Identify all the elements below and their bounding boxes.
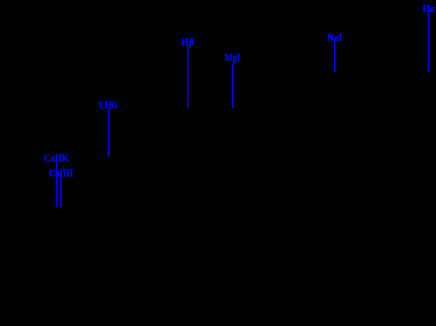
line CaIIK xyxy=(56,162,58,207)
line CHG xyxy=(108,109,110,156)
line H-alpha xyxy=(428,12,430,72)
line NaI xyxy=(334,41,336,72)
line MgI xyxy=(232,64,234,107)
line H-beta xyxy=(187,48,189,108)
svg-text:MgI: MgI xyxy=(225,53,241,64)
svg-text:Hβ: Hβ xyxy=(181,38,194,49)
line CaIIH xyxy=(60,177,62,207)
